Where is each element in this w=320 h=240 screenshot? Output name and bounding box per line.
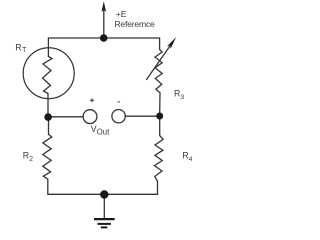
svg-text:R2: R2 — [23, 151, 33, 163]
svg-text:+E: +E — [116, 9, 127, 19]
svg-text:RT: RT — [15, 43, 27, 55]
svg-text:VOut: VOut — [91, 124, 110, 136]
svg-text:R3: R3 — [174, 89, 184, 101]
svg-text:R4: R4 — [182, 151, 192, 163]
svg-text:Referemce: Referemce — [114, 19, 155, 29]
